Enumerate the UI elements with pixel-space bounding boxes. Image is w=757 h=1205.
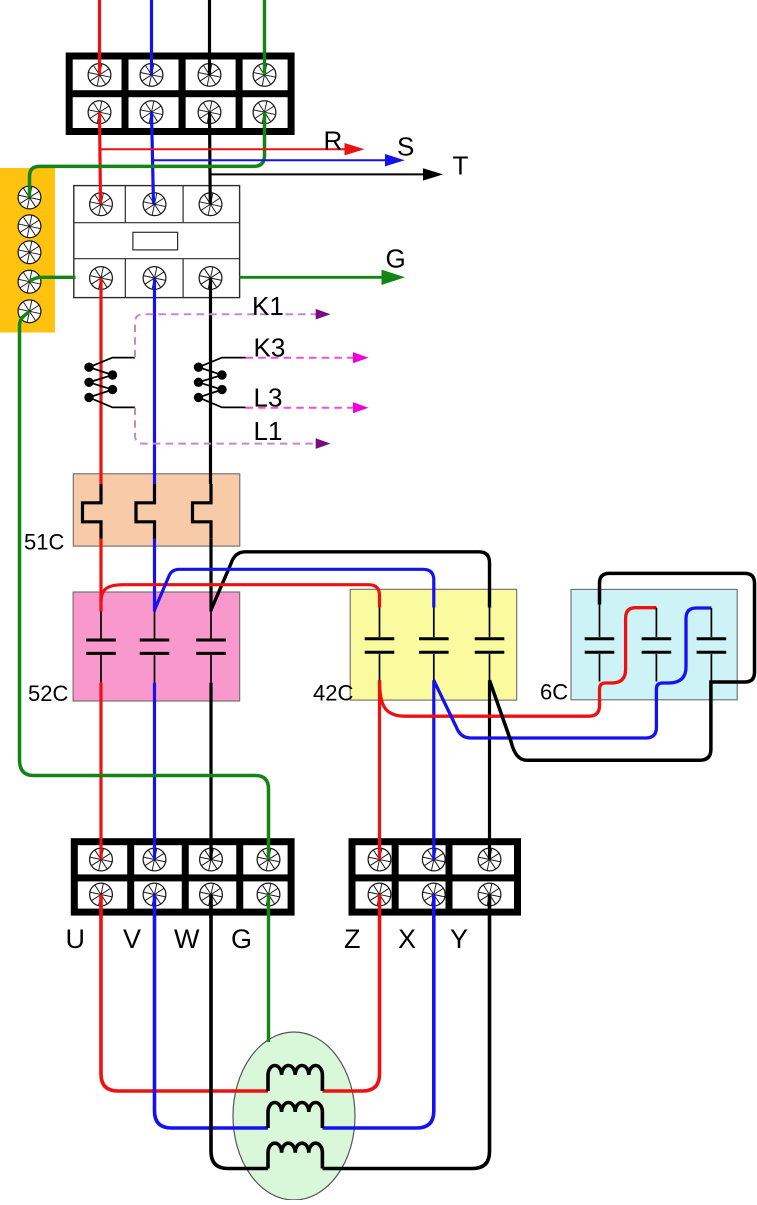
control line K1 (dashed) — [135, 314, 316, 357]
svg-text:L1: L1 — [254, 416, 283, 446]
svg-text:42C: 42C — [313, 681, 353, 706]
control line L3 (dashed) — [246, 407, 354, 409]
motor winding coil 1 — [268, 1066, 322, 1092]
svg-text:51C: 51C — [24, 530, 64, 555]
svg-text:T: T — [453, 151, 469, 181]
arrow R — [345, 143, 365, 155]
capacitor 6C-C1 — [585, 603, 615, 682]
wire green contactor to G arrow — [240, 276, 382, 279]
terminal block TB4 (Z X Y) — [349, 838, 522, 915]
arrow L1 — [316, 438, 331, 449]
wire green terminal G into motor — [267, 895, 270, 1043]
TB4 screw terminals — [368, 848, 501, 906]
svg-text:W: W — [174, 924, 200, 954]
control line K3 (dashed) — [246, 357, 354, 359]
TB2 screw terminals — [18, 186, 41, 323]
capacitor block 6C — [571, 589, 737, 699]
wire green TB2 down-left side to terminal G — [20, 311, 269, 859]
wire red phase in (top) — [98, 0, 101, 75]
TB3 screw terminals — [90, 848, 280, 906]
TB1 screw terminals — [88, 63, 276, 123]
wire red TB1 to contactor — [100, 112, 101, 204]
capacitor 42C-C1 — [365, 608, 395, 681]
overload relay block 51C — [73, 474, 240, 546]
capacitor 52C-C1 — [86, 612, 116, 683]
svg-text:L3: L3 — [254, 383, 283, 413]
svg-text:R: R — [324, 126, 343, 156]
wire red branch to R — [100, 148, 345, 150]
arrow G — [382, 270, 406, 285]
wire blue contactor to 51C — [153, 278, 156, 484]
capacitor 42C-C3 — [475, 608, 505, 681]
arrow K3 — [353, 352, 369, 363]
terminal block TB3 (U V W G) — [71, 838, 295, 915]
capacitor 52C-C2 — [140, 612, 170, 683]
wire black branch 52C to 42C cap3 — [211, 552, 490, 610]
heater element 51C-2 — [136, 484, 155, 539]
svg-text:S: S — [397, 132, 414, 162]
motor winding coil 3 — [268, 1143, 322, 1168]
svg-text:Y: Y — [450, 924, 468, 954]
wire blue terminal V to motor coil 2 — [155, 895, 269, 1129]
arrow L3 — [353, 402, 369, 413]
capacitor block 42C — [350, 589, 517, 700]
svg-text:6C: 6C — [540, 680, 568, 705]
capacitor 6C-C3 — [697, 608, 727, 681]
arrow S — [385, 154, 405, 166]
wire green earth in (top) — [263, 0, 266, 75]
capacitor 6C-C2 — [642, 608, 672, 682]
wire blue 42C cap2 bottom to 6C cap2/cap3 chain — [434, 608, 712, 738]
current transformer CT2 (on black phase) — [195, 358, 246, 408]
wire black 42C cap3 bottom to 6C cap3 + ring loop to 6C cap1 — [490, 573, 755, 760]
terminal strip TB2 (orange, left edge) — [0, 168, 55, 333]
control line L1 (dashed) — [135, 408, 316, 444]
svg-text:X: X — [398, 924, 416, 954]
capacitor 42C-C2 — [419, 608, 449, 681]
arrow T — [423, 168, 443, 180]
contactor terminals — [90, 193, 222, 290]
wire red branch 52C to 42C cap1 — [101, 585, 380, 608]
wire red 42C to terminal Z — [378, 680, 381, 859]
wire blue 52C to terminal V — [153, 683, 156, 860]
svg-text:K1: K1 — [252, 291, 284, 321]
wire black 52C to terminal W — [209, 683, 212, 860]
svg-text:G: G — [231, 924, 252, 954]
heater element 51C-3 — [193, 484, 212, 539]
wire blue TB1 to contactor — [152, 112, 154, 204]
svg-text:K3: K3 — [254, 333, 286, 363]
wire black 51C to 52C cap — [209, 539, 212, 612]
svg-text:Z: Z — [344, 924, 361, 954]
wire red terminal U to motor coil 1 — [101, 895, 268, 1092]
wire red terminal Z to motor coil 1 — [323, 895, 380, 1092]
wire blue phase in (top) — [150, 0, 153, 75]
wire green TB1 to TB2 strip — [30, 112, 265, 197]
wire red 52C to terminal U — [99, 683, 102, 860]
svg-text:52C: 52C — [28, 681, 68, 706]
wire blue branch 52C to 42C cap2 — [155, 569, 434, 610]
wire black contactor to 51C (through CT2) — [209, 278, 212, 484]
wire red 42C cap1 bottom to 6C cap1/cap2 chain — [380, 608, 657, 717]
wire black branch to T — [210, 173, 423, 175]
heater element 51C-1 — [83, 484, 102, 539]
arrow K1 — [316, 309, 331, 320]
wire black TB1 to contactor — [208, 112, 212, 204]
wire blue 42C to terminal X — [432, 680, 435, 859]
wire black terminal Y to motor coil 3 — [323, 895, 490, 1169]
contactor K (white block with 6 terminals) — [74, 186, 240, 298]
motor M1 (stator ellipse) — [233, 1032, 355, 1200]
wire blue 51C to 52C cap — [153, 539, 156, 612]
capacitor 52C-C3 — [196, 612, 226, 683]
wire blue terminal X to motor coil 2 — [323, 895, 434, 1129]
wire red contactor to 51C (through CT1) — [99, 278, 102, 484]
wire red 51C to 52C cap — [99, 539, 102, 612]
capacitor block 52C — [73, 592, 240, 701]
wire blue branch to S — [153, 159, 386, 161]
wire black 42C to terminal Y — [488, 680, 491, 859]
wire black terminal W to motor coil 3 — [211, 895, 268, 1169]
svg-text:V: V — [123, 924, 141, 954]
svg-text:U: U — [66, 924, 86, 954]
terminal block TB1 (top, 4x2) — [66, 53, 295, 136]
motor winding coil 2 — [268, 1103, 322, 1129]
current transformer CT1 (on red phase) — [85, 358, 135, 408]
wire green TB2 to contactor — [30, 277, 76, 281]
svg-text:G: G — [386, 243, 406, 273]
wire black phase in (top) — [208, 0, 211, 75]
